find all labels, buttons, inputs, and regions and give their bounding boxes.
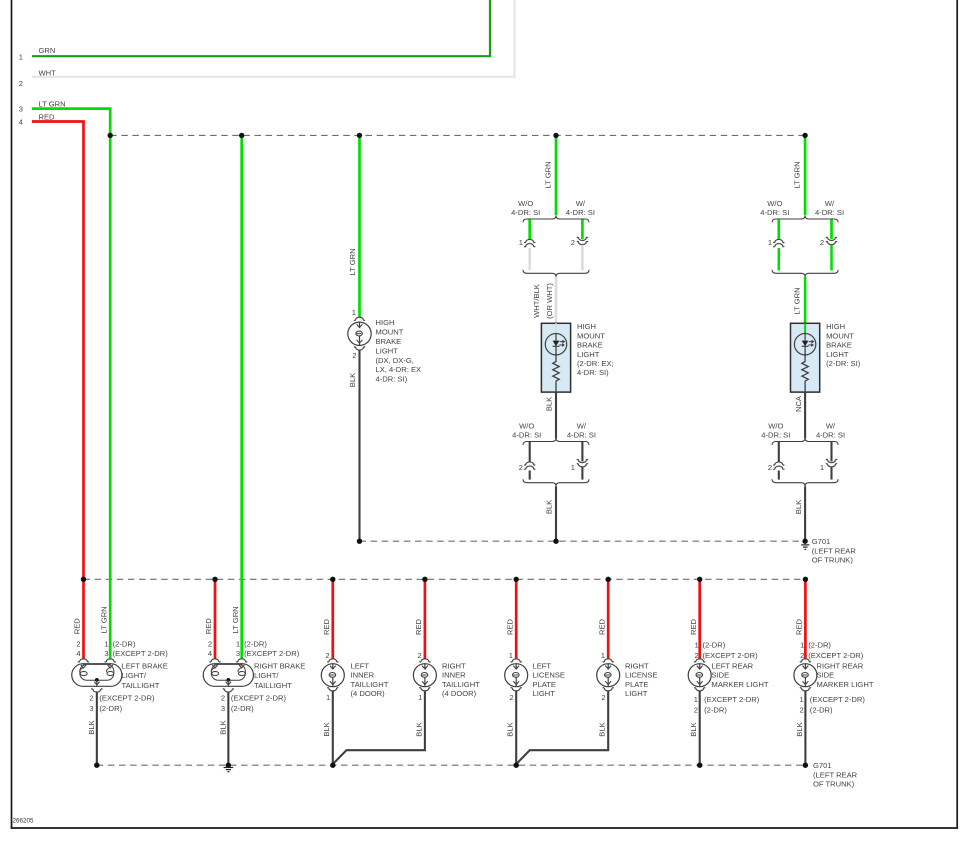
wire branch right lower group bbox=[830, 442, 832, 461]
junction on LT GRN bus bbox=[553, 133, 558, 138]
bulb RIGHT REAR SIDE MARKER LIGHT bbox=[794, 664, 817, 687]
svg-text:(2-DR): (2-DR) bbox=[231, 704, 254, 713]
connector cap below bbox=[694, 688, 705, 691]
split brace lower bbox=[772, 438, 838, 445]
inline connector female halves lower bbox=[524, 462, 535, 465]
svg-text:1: 1 bbox=[820, 463, 824, 472]
svg-text:1: 1 bbox=[352, 308, 356, 317]
svg-text:LIGHT/: LIGHT/ bbox=[254, 671, 279, 680]
svg-text:W/: W/ bbox=[826, 421, 836, 430]
svg-text:WHT/BLK: WHT/BLK bbox=[532, 284, 541, 318]
svg-text:(2-DR): (2-DR) bbox=[810, 705, 833, 714]
merge brace upper bbox=[523, 270, 589, 277]
junction on RED bus bbox=[606, 577, 611, 582]
inline connector male halves lower bbox=[826, 459, 837, 462]
svg-text:4: 4 bbox=[76, 649, 80, 658]
svg-text:4-DR: SI: 4-DR: SI bbox=[566, 208, 595, 217]
connector cap above bbox=[694, 659, 705, 662]
wire RED stub to left inner taillight bbox=[331, 579, 334, 659]
wire BLK from LEFT BRAKE LIGHT/TAILLIGHT bbox=[96, 692, 98, 766]
inline connector male halves lower bbox=[577, 459, 588, 462]
svg-text:(EXCEPT 2-DR): (EXCEPT 2-DR) bbox=[113, 649, 169, 658]
svg-text:LEFT BRAKE: LEFT BRAKE bbox=[122, 661, 168, 670]
junction on lower G701 bus bbox=[226, 763, 231, 768]
svg-text:(2-DR): (2-DR) bbox=[808, 640, 831, 649]
inline connector male halves bbox=[826, 237, 837, 240]
connector cap below U1 bbox=[354, 347, 365, 350]
svg-text:RIGHT: RIGHT bbox=[625, 661, 649, 670]
bulb RIGHT LICENSE PLATE LIGHT bbox=[597, 664, 620, 687]
svg-text:BLK: BLK bbox=[545, 500, 554, 514]
svg-text:1: 1 bbox=[326, 693, 330, 702]
svg-text:LT GRN: LT GRN bbox=[39, 99, 66, 108]
svg-text:GRN: GRN bbox=[39, 46, 56, 55]
wire branch left lower group bbox=[529, 442, 531, 462]
wire RED from pin 4 down to red bus bbox=[32, 122, 84, 580]
svg-text:LEFT REAR: LEFT REAR bbox=[712, 661, 754, 670]
svg-text:LIGHT: LIGHT bbox=[376, 346, 399, 355]
svg-text:(2-DR: SI): (2-DR: SI) bbox=[826, 359, 861, 368]
wire BLK from right rear side marker light bbox=[804, 690, 806, 765]
wire to high mount brake light bbox=[804, 277, 807, 333]
svg-text:HIGH: HIGH bbox=[826, 322, 845, 331]
svg-text:1: 1 bbox=[601, 651, 605, 660]
inline connector female halves bbox=[773, 239, 784, 242]
junction on G701 bus bbox=[357, 539, 362, 544]
resistor inside module bbox=[553, 361, 559, 393]
svg-text:(2-DR): (2-DR) bbox=[113, 639, 136, 648]
svg-text:1: 1 bbox=[571, 463, 575, 472]
svg-text:BRAKE: BRAKE bbox=[577, 341, 603, 350]
svg-text:LEFT: LEFT bbox=[533, 661, 552, 670]
svg-text:BLK: BLK bbox=[795, 722, 804, 736]
svg-text:2: 2 bbox=[694, 705, 698, 714]
svg-text:3: 3 bbox=[89, 704, 93, 713]
terminal pin bbox=[212, 672, 219, 676]
svg-text:(DX, DX-G,: (DX, DX-G, bbox=[376, 356, 414, 365]
svg-text:W/O: W/O bbox=[519, 421, 534, 430]
junction LT GRN bus right bbox=[239, 133, 244, 138]
svg-text:(EXCEPT 2-DR): (EXCEPT 2-DR) bbox=[703, 651, 759, 660]
wire BLK below module bbox=[555, 392, 557, 438]
svg-text:266205: 266205 bbox=[13, 818, 35, 825]
junction on G701 bus bbox=[802, 539, 807, 544]
svg-text:SIDE: SIDE bbox=[712, 671, 730, 680]
svg-text:RED: RED bbox=[689, 618, 698, 635]
svg-text:W/O: W/O bbox=[768, 421, 783, 430]
junction on RED bus bbox=[422, 577, 427, 582]
wire LT GRN from bus bbox=[804, 135, 807, 215]
svg-text:LT GRN: LT GRN bbox=[99, 606, 108, 633]
svg-text:4-DR: SI: 4-DR: SI bbox=[761, 431, 790, 440]
svg-text:NCA: NCA bbox=[794, 395, 803, 412]
svg-text:W/: W/ bbox=[576, 199, 586, 208]
svg-text:RED: RED bbox=[73, 618, 82, 635]
svg-text:(LEFT REAR: (LEFT REAR bbox=[812, 546, 857, 555]
svg-text:BLK: BLK bbox=[87, 720, 96, 734]
exit arrow bbox=[96, 680, 98, 686]
bus ground G701 lower dashed bbox=[97, 764, 806, 766]
svg-text:2: 2 bbox=[601, 693, 605, 702]
exit arrow bbox=[227, 680, 229, 686]
terminal pin bbox=[107, 672, 114, 676]
wire branch left (W/O 4-DR: SI) bbox=[528, 220, 531, 240]
svg-text:(2-DR): (2-DR) bbox=[99, 704, 122, 713]
svg-text:LEFT: LEFT bbox=[351, 661, 370, 670]
svg-text:BLK: BLK bbox=[689, 722, 698, 736]
svg-text:(2-DR): (2-DR) bbox=[704, 705, 727, 714]
resistor inside module bbox=[802, 361, 808, 393]
svg-text:2: 2 bbox=[76, 639, 80, 648]
svg-text:BLK: BLK bbox=[348, 373, 357, 387]
svg-text:TAILLIGHT: TAILLIGHT bbox=[351, 680, 389, 689]
svg-text:2: 2 bbox=[571, 238, 575, 247]
svg-text:LX, 4-DR: EX: LX, 4-DR: EX bbox=[376, 365, 422, 374]
svg-text:(EXCEPT 2-DR): (EXCEPT 2-DR) bbox=[99, 693, 155, 702]
svg-text:RED: RED bbox=[39, 112, 56, 121]
terminal pin bbox=[238, 672, 245, 676]
svg-text:LIGHT: LIGHT bbox=[577, 350, 600, 359]
merge brace upper bbox=[772, 270, 838, 277]
svg-text:2: 2 bbox=[417, 651, 421, 660]
terminal arrow bbox=[241, 663, 243, 665]
svg-text:4-DR: SI: 4-DR: SI bbox=[511, 208, 540, 217]
svg-text:1: 1 bbox=[418, 693, 422, 702]
svg-text:4-DR: SI: 4-DR: SI bbox=[816, 431, 845, 440]
internal junction bbox=[226, 678, 230, 682]
junction on lower G701 bus bbox=[514, 763, 519, 768]
wire branch left lower group bbox=[778, 442, 780, 462]
svg-text:RIGHT BRAKE: RIGHT BRAKE bbox=[254, 661, 305, 670]
svg-text:1: 1 bbox=[509, 651, 513, 660]
svg-text:TAILLIGHT: TAILLIGHT bbox=[254, 681, 292, 690]
svg-text:LT GRN: LT GRN bbox=[231, 606, 240, 633]
connector cap above bbox=[419, 659, 430, 662]
svg-text:3: 3 bbox=[19, 104, 23, 113]
svg-text:MARKER LIGHT: MARKER LIGHT bbox=[817, 680, 874, 689]
junction on LT GRN bus bbox=[802, 133, 807, 138]
svg-text:PLATE: PLATE bbox=[625, 680, 649, 689]
wire branch right (W/ 4-DR: SI) bbox=[830, 220, 833, 240]
LED symbol bbox=[545, 334, 566, 355]
svg-text:RED: RED bbox=[322, 618, 331, 635]
svg-text:1: 1 bbox=[768, 238, 772, 247]
ground symbol G701 upper bbox=[801, 544, 809, 546]
svg-text:(4 DOOR): (4 DOOR) bbox=[351, 689, 386, 698]
svg-text:(EXCEPT 2-DR): (EXCEPT 2-DR) bbox=[231, 693, 287, 702]
svg-text:BLK: BLK bbox=[322, 722, 331, 736]
wire BLK to G701 bus bbox=[555, 486, 557, 541]
connector cap below bbox=[223, 689, 234, 692]
connector caps above bbox=[209, 659, 220, 662]
svg-text:RIGHT REAR: RIGHT REAR bbox=[817, 661, 864, 670]
split brace upper bbox=[523, 216, 589, 223]
bus ground G701 upper dashed bbox=[360, 540, 806, 542]
junction on RED bus bbox=[514, 577, 519, 582]
bulb RIGHT INNER TAILLIGHT (4 DOOR) bbox=[413, 664, 436, 687]
connector cap below bbox=[511, 688, 522, 691]
svg-text:2: 2 bbox=[799, 705, 803, 714]
high mount brake light module box bbox=[791, 323, 820, 392]
svg-text:LT GRN: LT GRN bbox=[544, 161, 553, 188]
wire RED stub to right brake light bbox=[214, 579, 217, 659]
wire branch left lower bbox=[778, 248, 781, 270]
svg-text:(EXCEPT 2-DR): (EXCEPT 2-DR) bbox=[810, 695, 866, 704]
ground symbol at right brake light ground bbox=[224, 767, 234, 769]
wire branch left (W/O 4-DR: SI) bbox=[777, 220, 780, 240]
svg-text:2: 2 bbox=[208, 639, 212, 648]
connector cap above bbox=[327, 659, 338, 662]
junction on RED bus bbox=[697, 577, 702, 582]
junction on lower G701 bus bbox=[697, 763, 702, 768]
svg-text:(LEFT REAR: (LEFT REAR bbox=[813, 770, 858, 779]
svg-text:2: 2 bbox=[89, 693, 93, 702]
svg-text:MOUNT: MOUNT bbox=[577, 331, 605, 340]
svg-text:MOUNT: MOUNT bbox=[376, 328, 404, 337]
junction on RED bus bbox=[212, 577, 217, 582]
wire LT GRN from pin 3 bbox=[32, 109, 110, 136]
svg-text:INNER: INNER bbox=[442, 671, 466, 680]
svg-text:2: 2 bbox=[325, 651, 329, 660]
wire LT GRN to left brake light bbox=[109, 135, 112, 659]
connector body RIGHT BRAKE LIGHT/TAILLIGHT bbox=[203, 664, 253, 687]
svg-text:1: 1 bbox=[104, 639, 108, 648]
connector cap below bbox=[800, 688, 811, 691]
svg-text:HIGH: HIGH bbox=[376, 318, 395, 327]
svg-text:HIGH: HIGH bbox=[577, 322, 596, 331]
connector cap above bbox=[800, 659, 811, 662]
svg-text:4: 4 bbox=[19, 118, 23, 127]
svg-text:TAILLIGHT: TAILLIGHT bbox=[442, 680, 480, 689]
svg-text:(EXCEPT 2-DR): (EXCEPT 2-DR) bbox=[244, 649, 300, 658]
svg-text:4-DR: SI: 4-DR: SI bbox=[567, 431, 596, 440]
svg-text:W/O: W/O bbox=[767, 199, 782, 208]
svg-text:BLK: BLK bbox=[598, 722, 607, 736]
svg-text:BRAKE: BRAKE bbox=[826, 341, 852, 350]
bus LT GRN dashed bbox=[110, 134, 805, 136]
wire BLK from U1 to G701 bus bbox=[358, 350, 360, 542]
svg-text:INNER: INNER bbox=[351, 671, 375, 680]
wire RED stub to right license plate light bbox=[607, 579, 610, 659]
wire BLK from left rear side marker light bbox=[699, 690, 701, 765]
bulb U1 high mount brake light bbox=[348, 322, 371, 345]
connector cap below bbox=[327, 688, 338, 691]
svg-text:OF TRUNK): OF TRUNK) bbox=[813, 780, 855, 789]
junction on RED bus bbox=[803, 577, 808, 582]
svg-text:2: 2 bbox=[820, 238, 824, 247]
svg-text:2: 2 bbox=[519, 463, 523, 472]
terminal pin bbox=[80, 672, 87, 676]
svg-text:G701: G701 bbox=[812, 537, 831, 546]
svg-text:(EXCEPT 2-DR): (EXCEPT 2-DR) bbox=[704, 695, 760, 704]
bulb LEFT INNER TAILLIGHT (4 DOOR) bbox=[321, 664, 344, 687]
junction on lower G701 bus bbox=[94, 763, 99, 768]
connector cap above bbox=[603, 659, 614, 662]
connector cap above U1 bbox=[354, 317, 365, 320]
wire branch left lower bbox=[528, 248, 531, 270]
svg-text:BLK: BLK bbox=[414, 722, 423, 736]
junction on LT GRN bus bbox=[357, 133, 362, 138]
svg-text:LT GRN: LT GRN bbox=[793, 287, 802, 314]
svg-text:3: 3 bbox=[221, 704, 225, 713]
junction on RED bus bbox=[330, 577, 335, 582]
wire LT GRN to high mount brake light U1 bbox=[358, 135, 361, 317]
svg-text:(2-DR): (2-DR) bbox=[244, 639, 267, 648]
svg-text:PLATE: PLATE bbox=[533, 680, 557, 689]
svg-text:W/: W/ bbox=[825, 199, 835, 208]
svg-text:RED: RED bbox=[597, 618, 606, 635]
svg-text:MARKER LIGHT: MARKER LIGHT bbox=[712, 680, 769, 689]
connector cap below bbox=[603, 688, 614, 691]
bus RED dashed bbox=[84, 578, 806, 580]
svg-text:(EXCEPT 2-DR): (EXCEPT 2-DR) bbox=[808, 651, 864, 660]
connector body LEFT BRAKE LIGHT/TAILLIGHT bbox=[72, 664, 122, 687]
junction on lower G701 bus bbox=[803, 763, 808, 768]
svg-text:G701: G701 bbox=[813, 761, 832, 770]
svg-text:BLK: BLK bbox=[545, 397, 554, 411]
junction on RED bus bbox=[81, 577, 86, 582]
wire LT GRN from bus bbox=[555, 135, 558, 215]
svg-text:1: 1 bbox=[236, 639, 240, 648]
connector cap above bbox=[511, 659, 522, 662]
wire BLK from right license plate light (jog) bbox=[517, 690, 609, 763]
wire LT GRN to right brake light bbox=[240, 135, 243, 659]
svg-text:RED: RED bbox=[204, 618, 213, 635]
svg-text:(2-DR): (2-DR) bbox=[703, 640, 726, 649]
inline connector female halves bbox=[524, 239, 535, 242]
wire WHT from pin 2 bbox=[32, 0, 515, 77]
svg-text:RED: RED bbox=[505, 618, 514, 635]
svg-text:4: 4 bbox=[208, 649, 212, 658]
svg-text:TAILLIGHT: TAILLIGHT bbox=[122, 681, 160, 690]
svg-text:1: 1 bbox=[694, 640, 698, 649]
wire RED stub to left rear side marker bbox=[698, 579, 701, 659]
svg-text:LT GRN: LT GRN bbox=[348, 248, 357, 275]
svg-text:W/: W/ bbox=[577, 421, 587, 430]
svg-text:MOUNT: MOUNT bbox=[826, 331, 854, 340]
svg-text:BLK: BLK bbox=[506, 722, 515, 736]
svg-text:LIGHT: LIGHT bbox=[533, 689, 556, 698]
svg-text:3: 3 bbox=[236, 649, 240, 658]
wire BLK to G701 bus bbox=[804, 486, 806, 541]
split brace upper bbox=[772, 216, 838, 223]
svg-text:4-DR: SI): 4-DR: SI) bbox=[376, 375, 408, 384]
bulb LEFT LICENSE PLATE LIGHT bbox=[505, 664, 528, 687]
connector caps above bbox=[78, 659, 89, 662]
wire RED stub to left license plate light bbox=[515, 579, 518, 659]
wire to high mount brake light bbox=[555, 277, 558, 333]
wire RED stub to right inner taillight bbox=[424, 579, 427, 659]
wire branch right lower bbox=[581, 245, 584, 271]
bulb LEFT REAR SIDE MARKER LIGHT bbox=[688, 664, 711, 687]
terminal arrow bbox=[83, 663, 85, 665]
svg-text:BRAKE: BRAKE bbox=[376, 337, 402, 346]
wire BLK from right inner taillight (jog) bbox=[333, 690, 425, 763]
svg-text:4-DR: SI: 4-DR: SI bbox=[760, 208, 789, 217]
merge brace lower bbox=[523, 479, 589, 486]
svg-text:LIGHT/: LIGHT/ bbox=[122, 671, 147, 680]
svg-text:2: 2 bbox=[19, 79, 23, 88]
svg-text:2: 2 bbox=[768, 463, 772, 472]
svg-text:RIGHT: RIGHT bbox=[442, 661, 466, 670]
svg-text:(2-DR: EX;: (2-DR: EX; bbox=[577, 359, 614, 368]
svg-text:4-DR: SI: 4-DR: SI bbox=[815, 208, 844, 217]
svg-text:1: 1 bbox=[519, 238, 523, 247]
wire branch right lower bbox=[830, 245, 833, 271]
wire BLK from left inner taillight to lower G701 bus bbox=[332, 690, 334, 765]
wire GRN from pin 1 bbox=[32, 0, 490, 56]
wire BLK below module bbox=[804, 392, 806, 438]
wire BLK from RIGHT BRAKE LIGHT/TAILLIGHT bbox=[227, 692, 229, 766]
svg-text:OF TRUNK): OF TRUNK) bbox=[812, 556, 854, 565]
junction on lower G701 bus bbox=[330, 763, 335, 768]
connector cap below bbox=[419, 688, 430, 691]
terminal arrow bbox=[109, 663, 111, 665]
LED symbol bbox=[794, 334, 815, 355]
svg-text:(OR WHT): (OR WHT) bbox=[545, 283, 554, 319]
svg-text:2: 2 bbox=[221, 693, 225, 702]
svg-text:4-DR: SI): 4-DR: SI) bbox=[577, 368, 609, 377]
junction LT GRN bus left bbox=[108, 133, 113, 138]
wire branch right lower group bbox=[581, 442, 583, 461]
wire branch right (W/ 4-DR: SI) bbox=[581, 220, 584, 240]
svg-text:BLK: BLK bbox=[219, 720, 228, 734]
svg-text:LICENSE: LICENSE bbox=[625, 671, 658, 680]
merge brace lower bbox=[772, 479, 838, 486]
inline connector female halves lower bbox=[773, 462, 784, 465]
svg-text:LIGHT: LIGHT bbox=[826, 350, 849, 359]
svg-text:2: 2 bbox=[509, 693, 513, 702]
terminal arrow bbox=[214, 663, 216, 665]
wire RED continues to left brake light bbox=[82, 579, 85, 659]
split brace lower bbox=[523, 438, 589, 445]
svg-text:4-DR: SI: 4-DR: SI bbox=[512, 431, 541, 440]
svg-text:1: 1 bbox=[19, 53, 23, 62]
svg-text:1: 1 bbox=[800, 640, 804, 649]
junction on G701 bus bbox=[553, 539, 558, 544]
inline connector male halves bbox=[577, 237, 588, 240]
svg-text:RED: RED bbox=[795, 618, 804, 635]
svg-text:3: 3 bbox=[104, 649, 108, 658]
svg-text:RED: RED bbox=[414, 618, 423, 635]
connector cap below bbox=[91, 689, 102, 692]
svg-text:LICENSE: LICENSE bbox=[533, 671, 566, 680]
svg-text:BLK: BLK bbox=[794, 500, 803, 514]
svg-text:SIDE: SIDE bbox=[817, 671, 835, 680]
high mount brake light module box bbox=[541, 323, 570, 392]
svg-text:2: 2 bbox=[352, 351, 356, 360]
internal junction bbox=[95, 678, 99, 682]
svg-text:(4 DOOR): (4 DOOR) bbox=[442, 689, 477, 698]
wire RED stub to right rear side marker bbox=[804, 579, 807, 659]
svg-text:W/O: W/O bbox=[518, 199, 533, 208]
svg-text:LIGHT: LIGHT bbox=[625, 689, 648, 698]
svg-text:1: 1 bbox=[799, 695, 803, 704]
wire BLK from left license plate light bbox=[515, 690, 517, 765]
svg-text:1: 1 bbox=[694, 695, 698, 704]
svg-text:LT GRN: LT GRN bbox=[793, 161, 802, 188]
